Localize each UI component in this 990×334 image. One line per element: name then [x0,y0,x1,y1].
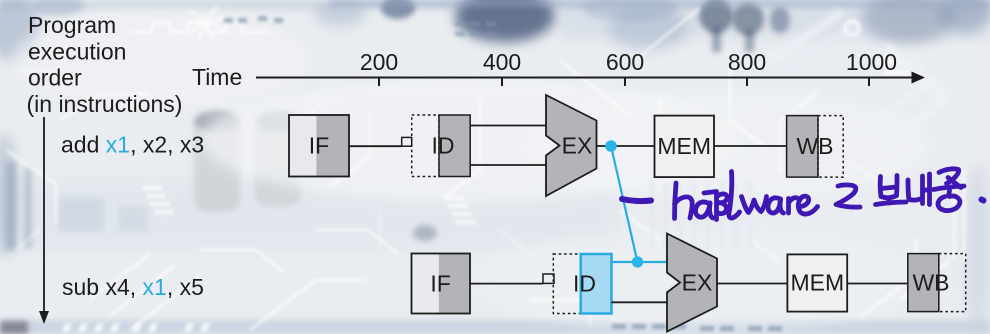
svg-text:ID: ID [432,133,455,159]
notch square row2 [543,274,554,283]
svg-text:MEM: MEM [790,270,844,296]
wire IF2 to ID2 [470,283,543,285]
stage WB box row2 [908,254,966,312]
wire ID1 to EX1 top [470,125,546,127]
wire EX2 to MEM2 [717,283,787,285]
small ic pads [142,60,910,224]
svg-text:(in instructions): (in instructions) [27,91,183,117]
sunburst heatsink top-left-middle [185,6,225,40]
stage EX alu row2 [667,234,717,332]
svg-text:EX: EX [562,133,593,159]
forwarding wire ID2 to EX2 top (blue) [612,261,667,263]
svg-text:800: 800 [728,49,766,75]
word hardware [675,172,818,220]
wire MEM2 to WB2 [847,283,908,285]
svg-text:add x1, x2, x3: add x1, x2, x3 [61,132,204,158]
wire EX1 to MEM1 [597,145,655,147]
stage MEM box row2 [787,254,847,311]
stage ID box row2 highlighted [553,254,611,314]
svg-text:Program: Program [28,12,116,38]
svg-text:600: 600 [606,49,644,75]
korean ro [836,185,860,207]
light washes where figure overlay is whiter [200,78,740,202]
wire ID1 to EX1 bottom [470,164,546,166]
wire MEM1 to WB1 [714,145,787,147]
svg-text:sub x4, x1, x5: sub x4, x1, x5 [62,274,204,300]
svg-text:IF: IF [309,133,329,159]
dash stroke [622,199,651,201]
wire ID2 to EX2 bottom [612,301,667,303]
wire IF1 to ID1 [349,145,402,147]
notch square row1 [402,137,412,146]
forwarding diagonal line EX1 to EX2 (blue) [611,146,638,262]
svg-text:200: 200 [360,49,398,75]
svg-text:ID: ID [573,271,596,297]
svg-text:MEM: MEM [657,133,711,159]
stage ID box row1 [412,115,471,177]
korean bo-nae-jum [876,169,965,211]
vertical order arrow [43,117,45,313]
stage MEM box row1 [655,116,715,178]
forwarding node dot EX2 input [632,256,643,267]
stage EX alu row1 [546,95,597,196]
stage WB box row1 [787,116,844,178]
svg-text:execution: execution [28,38,126,64]
svg-text:IF: IF [430,271,450,297]
svg-text:WB: WB [912,270,949,296]
big faint chevrons top right [856,46,946,150]
svg-text:WB: WB [796,133,833,159]
svg-text:1000: 1000 [846,49,897,75]
tick labels [360,49,897,75]
forwarding node dot EX1 output [605,140,617,152]
period dot [982,200,984,201]
svg-text:400: 400 [483,49,521,75]
svg-text:EX: EX [682,270,713,296]
axis arrowhead [912,72,926,84]
svg-text:Time: Time [192,64,242,90]
time axis [256,78,914,87]
stage IF box row2 [412,254,471,314]
svg-text:order: order [28,65,82,91]
stage IF box row1 [289,115,349,177]
faint capacitors left-middle [194,118,240,212]
